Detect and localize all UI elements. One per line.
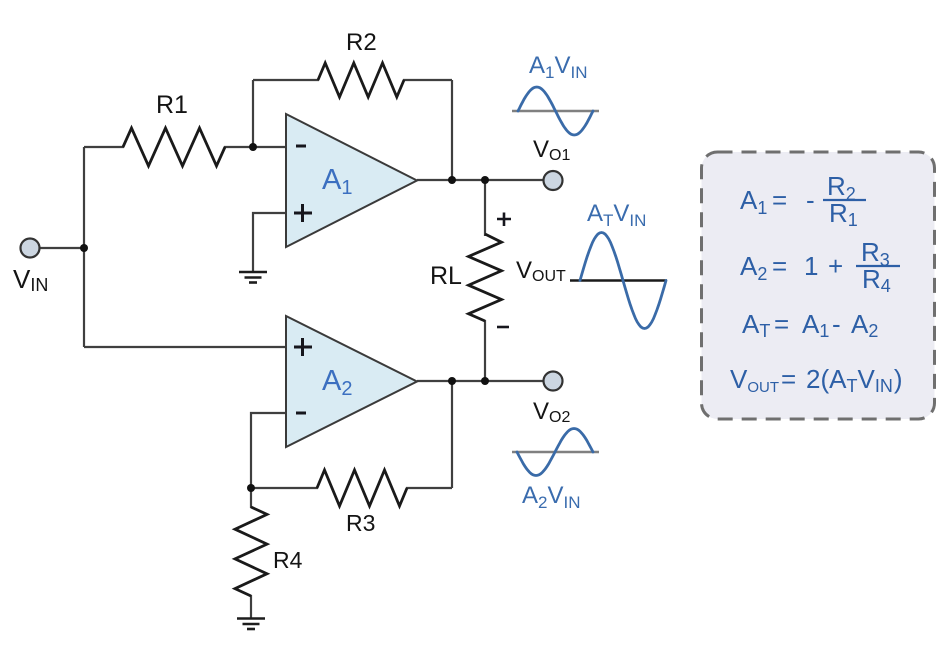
wire: R3 lead-in bbox=[251, 487, 318, 489]
formula box bbox=[702, 152, 935, 419]
op-amp A1 bbox=[286, 114, 417, 247]
terminal VIN bbox=[21, 239, 40, 258]
waveform ATVIN sine bbox=[580, 233, 666, 329]
op-amp A2 minus pin mark bbox=[296, 412, 306, 415]
wire: A2 non-inverting input line bbox=[84, 346, 286, 348]
svg-text:ATVIN: ATVIN bbox=[587, 200, 646, 230]
svg-text:A1VIN: A1VIN bbox=[529, 52, 588, 82]
waveform A2VIN sine (inverted) bbox=[517, 429, 593, 476]
wire: RL top lead bbox=[484, 180, 486, 236]
node: A1 output / RL junction bbox=[481, 176, 489, 184]
svg-text:=: = bbox=[772, 251, 787, 281]
axis line for ATVIN waveform bbox=[570, 279, 667, 281]
resistor RL bbox=[469, 234, 502, 321]
ground (A1 non-inverting) bbox=[239, 272, 267, 283]
wire: feedback vertical up from inverting node bbox=[252, 80, 254, 147]
resistor R3 bbox=[317, 470, 407, 506]
wire: left vertical bus bbox=[83, 147, 85, 347]
node: R3/R4 junction bbox=[247, 484, 255, 492]
op-amp A2 plus pin mark bbox=[294, 338, 312, 356]
wire: VIN stub bbox=[40, 247, 84, 249]
wire: A2 output rail bbox=[417, 380, 544, 382]
label + (load top polarity) bbox=[497, 213, 511, 227]
svg-text:1: 1 bbox=[804, 251, 818, 281]
axis line for A2VIN waveform bbox=[512, 451, 599, 453]
formula A1 = -R2/R1 bbox=[740, 171, 866, 230]
waveform A1VIN sine bbox=[518, 87, 593, 135]
svg-text:R4: R4 bbox=[273, 547, 303, 573]
svg-text:A2VIN: A2VIN bbox=[522, 482, 581, 512]
axis line for A1VIN waveform bbox=[512, 110, 599, 112]
wire: R3 lead-out bbox=[406, 487, 452, 489]
svg-text:=: = bbox=[774, 309, 789, 339]
node: VIN junction bbox=[80, 244, 88, 252]
label - (load bottom polarity) bbox=[497, 326, 509, 329]
formula AT = A1 - A2 bbox=[742, 309, 878, 341]
svg-text:-: - bbox=[806, 185, 815, 215]
wire: R1 lead-out to A1 inverting input bbox=[224, 146, 286, 148]
svg-text:R2: R2 bbox=[346, 29, 377, 56]
wire: R2 lead-out bbox=[403, 79, 452, 81]
svg-text:R1: R1 bbox=[156, 91, 188, 119]
svg-text:RL: RL bbox=[430, 262, 462, 290]
svg-text:+: + bbox=[828, 251, 843, 281]
resistor R4 bbox=[235, 507, 267, 596]
svg-text:VIN: VIN bbox=[13, 264, 48, 295]
op-amp A1 minus pin mark bbox=[296, 145, 306, 148]
svg-text:-: - bbox=[832, 309, 841, 339]
svg-text:R3: R3 bbox=[346, 510, 375, 536]
node: A2 output / R3 junction bbox=[448, 377, 456, 385]
op-amp A1 plus pin mark bbox=[294, 204, 312, 222]
svg-text:=: = bbox=[772, 185, 787, 215]
svg-text:VOUT: VOUT bbox=[516, 257, 566, 285]
wire: A1 non-inverting stub bbox=[253, 213, 286, 271]
wire: R4 bottom lead bbox=[250, 595, 252, 618]
resistor R1 bbox=[123, 128, 225, 166]
node: A2 output / RL junction bbox=[481, 377, 489, 385]
formula VOUT = 2(ATVIN) bbox=[730, 364, 902, 396]
wire: A1 output rail bbox=[417, 179, 544, 181]
resistor R2 bbox=[318, 63, 404, 97]
svg-text:=: = bbox=[781, 364, 796, 394]
terminal VO2 bbox=[544, 372, 563, 391]
terminal VO1 bbox=[544, 171, 563, 190]
svg-text:VO1: VO1 bbox=[533, 136, 570, 164]
wire: R3 right vertical up to A2 output bbox=[451, 381, 453, 488]
wire: R2 lead-in bbox=[253, 79, 319, 81]
wire: R2 right vertical down to A1 output bbox=[451, 80, 453, 180]
node: A1 output / R2 junction bbox=[448, 176, 456, 184]
svg-text:VO2: VO2 bbox=[533, 398, 570, 426]
node: inverting input junction bbox=[249, 143, 257, 151]
ground (below R4) bbox=[237, 619, 265, 630]
op-amp A2 bbox=[286, 316, 417, 447]
formula A2 = 1 + R3/R4 bbox=[740, 237, 900, 296]
wire: R1 lead-in bbox=[84, 146, 124, 148]
wire: A2 inverting stub bbox=[251, 413, 286, 488]
wire: RL bottom lead bbox=[484, 320, 486, 381]
wire: R4 top lead bbox=[250, 488, 252, 508]
